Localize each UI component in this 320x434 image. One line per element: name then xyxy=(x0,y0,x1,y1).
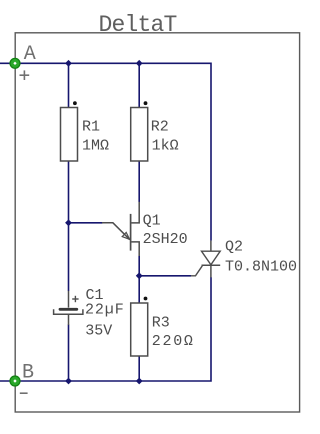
wire R2 bottom to Q1 B2 xyxy=(138,161,140,202)
svg-text:220Ω: 220Ω xyxy=(152,333,195,350)
svg-text:T0.8N100: T0.8N100 xyxy=(225,258,297,275)
port B xyxy=(10,376,20,386)
svg-text:R3: R3 xyxy=(152,315,170,332)
svg-text:DeltaT: DeltaT xyxy=(99,12,177,38)
svg-text:B: B xyxy=(22,361,34,384)
svg-text:2SH20: 2SH20 xyxy=(143,231,188,248)
capacitor C1 xyxy=(54,287,125,339)
svg-text:Q2: Q2 xyxy=(225,238,243,255)
node A label xyxy=(24,43,36,66)
wire Q1 B1 to R3 xyxy=(138,256,140,303)
junction Q1 emitter node xyxy=(65,219,72,226)
wire top rail A to Q2 anode xyxy=(0,63,211,240)
svg-text:Q1: Q1 xyxy=(143,212,161,229)
junction top R2 xyxy=(136,60,143,67)
resistor R1 xyxy=(61,101,110,161)
title DeltaT xyxy=(99,12,177,38)
resistor R3 xyxy=(131,297,195,356)
wire Q1 emitter xyxy=(69,222,103,224)
junction bottom R1 xyxy=(65,378,72,385)
wire C1 to bottom rail xyxy=(68,325,70,382)
wire bottom rail B to Q2 cathode xyxy=(0,277,211,381)
wire Q2 gate xyxy=(139,275,191,277)
wire R2 top branch xyxy=(138,63,140,107)
wire R1 bottom to C1 xyxy=(68,161,70,291)
wire R3 bottom to rail xyxy=(138,356,140,381)
wire R1 top branch xyxy=(68,63,70,107)
junction top R1 xyxy=(65,60,72,67)
transistor Q1 (UJT 2SH20) xyxy=(102,202,188,256)
svg-text:35V: 35V xyxy=(85,322,112,339)
junction bottom R3 xyxy=(136,378,143,385)
svg-text:R1: R1 xyxy=(82,118,100,135)
port A xyxy=(10,58,20,68)
svg-text:22µF: 22µF xyxy=(85,302,125,319)
plus mark at port A xyxy=(20,70,30,80)
svg-text:1kΩ: 1kΩ xyxy=(152,137,179,154)
resistor R2 xyxy=(131,101,179,161)
junction Q2 gate node xyxy=(136,272,143,279)
thyristor Q2 (T0.8N100) xyxy=(191,238,297,277)
svg-text:1MΩ: 1MΩ xyxy=(82,137,109,154)
node B label xyxy=(22,361,34,384)
svg-text:A: A xyxy=(24,43,36,66)
minus mark at port B xyxy=(20,392,28,394)
svg-text:R2: R2 xyxy=(151,118,169,135)
frame border xyxy=(15,33,299,412)
